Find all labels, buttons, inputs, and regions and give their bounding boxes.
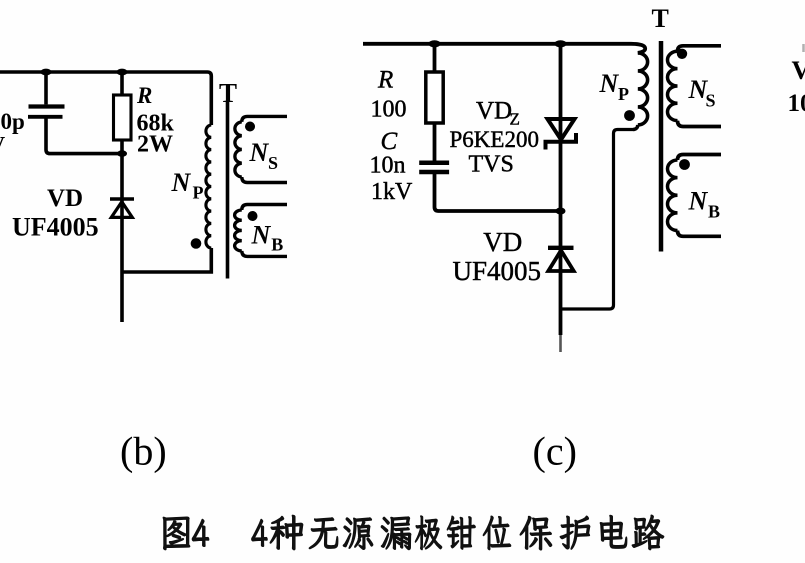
svg-text:1kV: 1kV xyxy=(371,179,413,205)
wire: circuit (b) top rail, cut at left edge, corner down into primary xyxy=(0,72,211,125)
wire: (c) primary coil bottom hook to return wire xyxy=(633,125,638,130)
wire: (c) primary return wire down and across to clamp branch xyxy=(561,130,634,310)
node: junction RC branch on (c) top rail xyxy=(429,40,441,47)
node: phasing dot on Np (b) xyxy=(191,238,202,249)
svg-text:V: V xyxy=(792,56,805,85)
svg-text:N: N xyxy=(599,69,620,98)
wire: capacitor top lead (b) xyxy=(44,72,48,104)
svg-text:B: B xyxy=(708,201,720,221)
capacitor C 10n 1kV (c) xyxy=(419,163,449,172)
svg-text:VD: VD xyxy=(476,98,512,125)
diode VD UF4005 (c): cathode bar xyxy=(548,246,574,250)
svg-text:T: T xyxy=(219,78,237,108)
svg-text:2W: 2W xyxy=(137,132,173,158)
node: junction capacitor wire joins resistor branch (b) xyxy=(117,150,127,157)
TVS diode VDz P6KE200: triangle apex down xyxy=(548,119,575,140)
node: junction RC wire joins clamp branch (c) xyxy=(556,208,566,215)
caption char 种 xyxy=(270,515,303,550)
diode VD UF4005 (c): triangle apex up xyxy=(548,250,573,271)
caption char 无 xyxy=(309,518,338,549)
svg-text:N: N xyxy=(251,221,272,250)
resistor R 100 (c) xyxy=(426,72,443,123)
caption char 极 xyxy=(415,516,442,550)
transformer T (c): secondary Ns leads xyxy=(678,46,722,127)
wire: R top lead (c) xyxy=(433,44,437,72)
svg-text:N: N xyxy=(249,138,270,167)
svg-text:(c): (c) xyxy=(533,429,577,474)
svg-text:C: C xyxy=(381,128,398,155)
svg-text:(b): (b) xyxy=(120,429,167,474)
svg-text:TVS: TVS xyxy=(469,152,514,178)
svg-text:Z: Z xyxy=(510,110,520,129)
caption char 保 xyxy=(520,516,552,550)
svg-text:P: P xyxy=(193,183,204,203)
svg-text:UF4005: UF4005 xyxy=(453,256,542,286)
transformer T (b): core bar xyxy=(226,102,230,279)
node: phasing dot on Ns (c) xyxy=(677,49,687,59)
diode VD UF4005 (b): triangle apex up xyxy=(111,202,132,218)
svg-text:R: R xyxy=(377,66,393,93)
svg-text:B: B xyxy=(271,235,283,255)
wire: (c) clamp branch vertical through TVS and diode to drain tail xyxy=(559,44,563,335)
TVS diode VDz: Z-shaped cathode bar xyxy=(546,133,577,150)
caption char 图 xyxy=(163,517,190,550)
transformer T (c): primary winding Np xyxy=(638,53,648,125)
resistor R 68k 2W (b) xyxy=(114,95,132,140)
svg-text:T: T xyxy=(652,4,669,33)
svg-text:S: S xyxy=(268,153,278,173)
svg-text:100: 100 xyxy=(371,97,407,123)
node: junction clamp branch on (c) top rail xyxy=(555,40,567,47)
caption char 源 xyxy=(343,518,373,550)
svg-text:10: 10 xyxy=(788,90,805,117)
svg-text:10n: 10n xyxy=(370,153,406,179)
wire: faint cut-off fragment of fourth circuit at right edge xyxy=(802,44,805,52)
transformer T (c): secondary Ns winding xyxy=(668,51,678,120)
transformer T (b): secondary Ns leads xyxy=(242,116,287,182)
svg-text:V: V xyxy=(0,133,6,158)
transformer T (c): secondary Nb winding xyxy=(668,160,678,230)
svg-text:S: S xyxy=(706,91,716,111)
svg-text:UF4005: UF4005 xyxy=(12,213,99,242)
wire: circuit (c) top rail with corner into primary xyxy=(363,44,645,53)
wire: C bottom lead down then right to clamp branch (c) xyxy=(435,172,561,211)
svg-text:N: N xyxy=(688,187,709,216)
svg-text:0p: 0p xyxy=(1,109,25,134)
svg-text:R: R xyxy=(136,83,152,108)
wire: R to C lead (c) xyxy=(433,123,437,161)
svg-text:N: N xyxy=(171,168,192,197)
caption char 漏 xyxy=(381,517,411,550)
node: phasing dot on Nb (c) xyxy=(679,159,690,170)
transformer T (c): secondary Nb leads xyxy=(678,155,722,237)
caption char 4 xyxy=(251,519,267,546)
caption char 护 xyxy=(560,516,590,550)
wire: capacitor bottom lead, down then right to resistor branch (b) xyxy=(46,117,122,154)
node: phasing dot on Nb (b) xyxy=(248,211,258,221)
caption char 钳 xyxy=(447,516,476,549)
wire: (b) left branch from top rail through resistor and diode to drain stub xyxy=(120,72,124,322)
node: junction of resistor branch on (b) top rail xyxy=(117,69,128,76)
wire: (b) primary bottom return wire xyxy=(122,248,211,272)
node: junction of capacitor branch on (b) top rail xyxy=(41,69,52,76)
diode VD UF4005 (b): cathode bar xyxy=(110,197,134,200)
svg-text:P: P xyxy=(618,84,629,104)
caption char 位 xyxy=(483,516,511,550)
transformer T (b): secondary Nb leads xyxy=(242,205,287,257)
capacitor (b), value 100p/1kV cut at left edge xyxy=(28,107,65,117)
svg-text:VD: VD xyxy=(47,185,83,212)
caption char 电 xyxy=(600,515,627,548)
wire: fading end of (c) drain tail xyxy=(559,335,562,352)
transformer T (c): core bar xyxy=(659,41,664,252)
transformer T (b): secondary Ns winding xyxy=(235,122,242,177)
svg-text:VD: VD xyxy=(483,227,522,257)
svg-text:P6KE200: P6KE200 xyxy=(450,127,539,152)
transformer T (b): secondary Nb winding xyxy=(235,210,242,251)
caption char 4 xyxy=(192,519,209,546)
transformer T (b): primary winding Np xyxy=(206,125,211,248)
node: phasing dot on Np (c) xyxy=(624,110,635,121)
caption char 路 xyxy=(632,515,664,550)
caption 图4 4种无源漏极钳位保护电路 xyxy=(163,515,664,550)
node: phasing dot on Ns (b) xyxy=(245,122,255,132)
